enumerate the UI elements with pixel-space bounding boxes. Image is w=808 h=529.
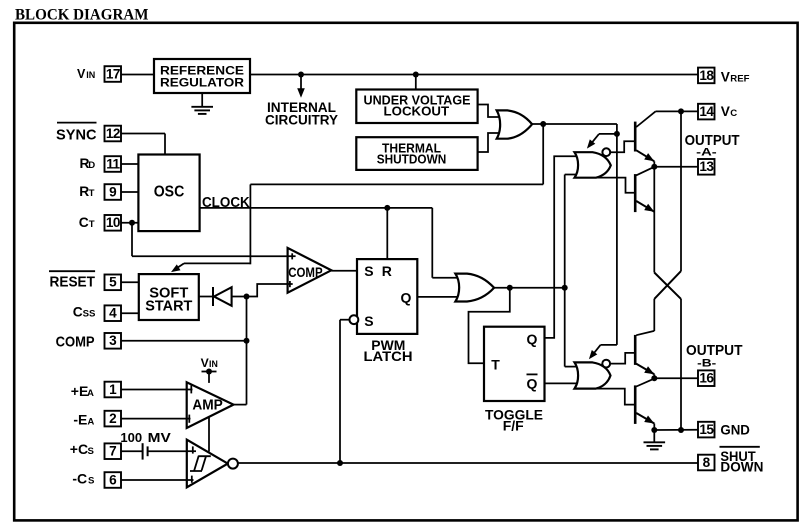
svg-text:12: 12 [106, 126, 121, 141]
svg-text:1: 1 [109, 382, 117, 397]
svg-text:16: 16 [699, 371, 714, 386]
svg-text:C: C [79, 215, 89, 230]
svg-text:15: 15 [699, 422, 714, 437]
svg-text:Q: Q [401, 289, 412, 305]
svg-text:CIRCUITRY: CIRCUITRY [265, 113, 338, 128]
svg-text:DOWN: DOWN [720, 460, 763, 475]
svg-text:LATCH: LATCH [364, 348, 413, 364]
svg-text:COMP: COMP [288, 264, 322, 280]
svg-text:10: 10 [106, 215, 120, 230]
svg-text:C: C [730, 108, 737, 119]
svg-text:LOCKOUT: LOCKOUT [384, 104, 450, 119]
svg-text:18: 18 [699, 68, 714, 83]
svg-text:D: D [88, 160, 95, 171]
svg-text:R: R [382, 263, 392, 279]
svg-text:6: 6 [109, 472, 117, 487]
svg-text:REF: REF [730, 74, 749, 85]
svg-text:AMP: AMP [192, 397, 223, 414]
svg-text:IN: IN [209, 359, 218, 369]
svg-text:T: T [89, 219, 95, 230]
svg-text:GND: GND [720, 423, 750, 438]
svg-text:-C: -C [72, 471, 87, 487]
svg-text:MV: MV [148, 430, 171, 445]
svg-text:START: START [145, 299, 192, 315]
svg-text:4: 4 [109, 306, 117, 321]
svg-text:A: A [87, 388, 94, 399]
svg-text:S: S [364, 263, 373, 279]
svg-text:IN: IN [86, 70, 95, 80]
svg-text:V: V [721, 70, 731, 85]
svg-text:13: 13 [699, 159, 714, 174]
svg-text:S: S [364, 313, 373, 329]
svg-text:OSC: OSC [154, 184, 185, 201]
svg-text:-B-: -B- [697, 358, 716, 370]
svg-text:SS: SS [83, 309, 96, 320]
svg-text:Q: Q [527, 376, 538, 392]
svg-text:+C: +C [70, 441, 88, 457]
svg-text:A: A [87, 417, 94, 428]
svg-text:SYNC: SYNC [56, 127, 97, 144]
svg-text:17: 17 [106, 66, 120, 81]
svg-text:COMP: COMP [56, 333, 95, 350]
svg-text:9: 9 [109, 184, 117, 199]
svg-text:SHUTDOWN: SHUTDOWN [377, 151, 447, 166]
svg-text:F/F: F/F [503, 418, 524, 434]
svg-text:8: 8 [703, 455, 711, 470]
svg-text:Q: Q [527, 331, 538, 347]
svg-text:11: 11 [106, 156, 120, 171]
svg-text:7: 7 [109, 444, 117, 459]
svg-text:S: S [88, 446, 95, 457]
svg-text:T: T [491, 356, 500, 372]
svg-text:C: C [73, 305, 83, 320]
svg-text:S: S [88, 476, 95, 487]
svg-text:RESET: RESET [50, 274, 96, 291]
svg-text:+E: +E [71, 383, 89, 399]
svg-text:REGULATOR: REGULATOR [160, 76, 244, 90]
svg-text:5: 5 [109, 275, 117, 290]
svg-text:100: 100 [120, 430, 142, 445]
svg-text:-E: -E [73, 412, 87, 428]
svg-text:2: 2 [109, 411, 117, 426]
svg-text:BLOCK DIAGRAM: BLOCK DIAGRAM [15, 7, 149, 24]
svg-text:V: V [721, 104, 731, 119]
svg-text:V: V [77, 67, 86, 81]
svg-text:-A-: -A- [696, 146, 717, 158]
svg-text:T: T [89, 188, 95, 199]
svg-text:14: 14 [699, 104, 714, 119]
svg-text:3: 3 [109, 333, 117, 348]
